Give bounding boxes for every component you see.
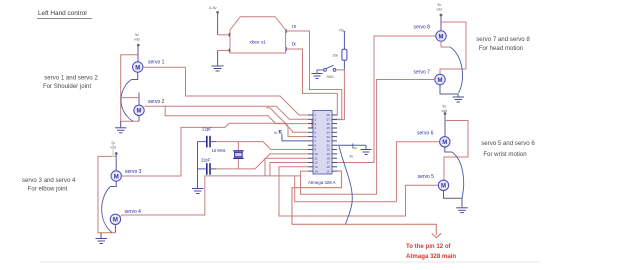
wire branch to IC pin3 [165, 106, 308, 123]
svg-text:M: M [438, 78, 443, 84]
svg-text:servo 5: servo 5 [418, 174, 435, 180]
svg-text:14: 14 [315, 169, 319, 173]
svg-text:26: 26 [327, 122, 331, 126]
wire servo2 top stub [138, 93, 140, 106]
svg-text:For head motion: For head motion [479, 45, 523, 52]
svg-text:servo 6: servo 6 [417, 130, 434, 136]
wire bracket to servo2 stub link [121, 97, 139, 99]
svg-text:M: M [441, 184, 446, 190]
wire xbee to ground [217, 50, 219, 65]
svg-text:+5v: +5v [339, 28, 345, 32]
svg-text:16 MHz: 16 MHz [212, 148, 226, 153]
title Left Hand control [37, 10, 92, 19]
svg-text:servo 1: servo 1 [148, 60, 165, 66]
svg-text:5v: 5v [438, 3, 442, 7]
power +3.3v P3 [209, 5, 219, 35]
wire servo6 bottom jog [445, 147, 452, 152]
motor servo 1 [133, 62, 143, 72]
note servo 7 and 8 [476, 36, 530, 52]
wire arc servo1 to ground [121, 80, 133, 122]
svg-text:15: 15 [327, 169, 331, 173]
svg-text:For elbow joint: For elbow joint [28, 186, 68, 193]
wire +5v loop to servo7 [440, 22, 466, 74]
wire servo1 signal to IC pin1 [143, 67, 308, 115]
svg-text:xbee s1: xbee s1 [249, 39, 266, 44]
xbee s1 body [230, 17, 286, 53]
wire IC pin12 drop [270, 163, 308, 176]
motor servo 7 [435, 74, 445, 84]
wire xbee rx to IC pin27 [286, 31, 342, 119]
note servo 1 and 2 [43, 75, 98, 91]
wire xbee tx to IC pin28 [286, 49, 338, 115]
wire blue bezier IC to bottom [339, 146, 352, 224]
ground G7 head [453, 97, 465, 102]
page bottom edge line [40, 261, 540, 263]
wire group2 bracket [98, 156, 116, 232]
power +5v P6 [442, 105, 448, 137]
wire arc servo6 to ground [452, 152, 464, 198]
note To the pin 12 red [406, 243, 456, 260]
motor servo 6 [440, 137, 450, 147]
svg-text:Atmega 328 A: Atmega 328 A [308, 180, 336, 185]
svg-text:servo 3: servo 3 [125, 169, 142, 175]
wire servo7 signal lane to IC pin11 [301, 80, 435, 195]
svg-text:servo 5 and servo 6: servo 5 and servo 6 [481, 140, 535, 147]
svg-text:22pF: 22pF [202, 126, 212, 131]
power +5v P1 [134, 33, 140, 62]
svg-text:rx: rx [292, 24, 297, 30]
IC U1 pins right [332, 115, 337, 171]
note servo 5 and 6 [481, 140, 535, 158]
wire servo5 signal lane to IC pin13 [279, 167, 438, 216]
wire group1 bracket [121, 55, 139, 122]
ground G5 caps [192, 189, 204, 194]
svg-text:20: 20 [327, 148, 331, 152]
svg-text:10k: 10k [333, 54, 339, 58]
svg-text:SW1: SW1 [327, 75, 334, 79]
node arrowhead to pin 12 [432, 233, 441, 238]
IC U1 pin numbers right 28-15 [327, 113, 331, 173]
xbee right pin ticks [285, 29, 287, 33]
wire servo6 signal lane to IC pin12 [295, 142, 440, 202]
op IC U1 Atmega 328 body [313, 111, 332, 175]
wire servo3 bottom jog [111, 181, 117, 186]
power +5v P4 [339, 28, 346, 32]
wire IC pin11 drop [265, 158, 308, 176]
xbee left pin upper [218, 34, 230, 36]
motor servo 5 [438, 180, 448, 190]
svg-text:Left Hand control: Left Hand control [38, 10, 87, 17]
xbee left pin lower [218, 49, 230, 51]
wire reset to IC pin4 [308, 70, 344, 128]
svg-text:servo 7 and servo 8: servo 7 and servo 8 [476, 36, 530, 43]
ground G6 right of IC [361, 150, 372, 155]
svg-text:vdd: vdd [437, 8, 443, 12]
node 5v net arrow at pin7 [274, 131, 282, 141]
svg-text:servo 8: servo 8 [414, 25, 431, 31]
IC U1 pins left [308, 115, 313, 171]
ground G4 sw1 [312, 74, 323, 79]
resistor R1 10k [342, 32, 347, 70]
wire C2 to IC pin10 [216, 154, 308, 169]
svg-text:servo 4: servo 4 [125, 209, 142, 215]
wire servo2 signal to IC pin2 [144, 106, 308, 119]
svg-text:M: M [442, 140, 447, 146]
motor servo 8 [436, 31, 446, 41]
wire C1 to IC pin9 [216, 142, 308, 150]
svg-text:servo 1 and servo 2: servo 1 and servo 2 [44, 75, 98, 82]
node 5v label right [350, 143, 357, 158]
wire servo8 signal to IC pin17R [337, 36, 436, 163]
svg-text:M: M [439, 34, 444, 40]
svg-text:tx: tx [292, 42, 296, 48]
capacitor C1 [198, 136, 217, 148]
IC U1 pin numbers left 1-14 [315, 113, 319, 173]
svg-text:servo 2: servo 2 [148, 99, 165, 105]
svg-text:servo 7: servo 7 [414, 70, 431, 76]
svg-text:3.3v: 3.3v [209, 5, 217, 10]
svg-text:5v: 5v [135, 33, 139, 37]
faint mark left [112, 142, 114, 157]
wire SW1 to ground [317, 70, 324, 73]
svg-text:M: M [137, 109, 142, 115]
ground G1 [115, 121, 127, 133]
wire IC pin15R loop to arrow line [292, 171, 436, 235]
svg-text:Atmaga 328 main: Atmaga 328 main [406, 253, 456, 260]
motor servo 2 [134, 105, 144, 115]
wire caps ground bracket [197, 142, 199, 188]
wire servo4 signal to IC pin14 [120, 171, 308, 217]
note servo 3 and 4 [22, 177, 76, 193]
wire servo8 bottom jog [441, 41, 450, 47]
svg-text:5v: 5v [443, 105, 447, 109]
wire IC pin21R to ground right [337, 145, 366, 149]
wire arc servo8 to ground [450, 47, 463, 93]
svg-text:To the pin 12 of: To the pin 12 of [406, 243, 452, 250]
svg-text:5v: 5v [274, 131, 278, 135]
wire +5v loop to servo5 [444, 121, 468, 181]
ground G3 xbee [212, 66, 224, 71]
svg-text:For Shoulder joint: For Shoulder joint [43, 83, 91, 90]
svg-text:22pF: 22pF [201, 157, 211, 162]
ground G2 [96, 233, 108, 244]
motor servo 4 [110, 214, 120, 224]
wire servo1 bottom jog [131, 72, 137, 79]
svg-text:M: M [114, 174, 119, 180]
power +5v P2 [111, 141, 118, 171]
wire arc servo3 to ground [102, 187, 112, 233]
wire servo2 bottom to bracket [138, 116, 140, 122]
wire 5v net to IC pin7 [282, 140, 308, 142]
wire servo7 bottom to ground [440, 85, 458, 97]
svg-text:servo 3 and servo 4: servo 3 and servo 4 [22, 177, 76, 184]
wire SW1 to resistor junction [336, 69, 344, 71]
crystal X1 [233, 142, 243, 169]
switch SW1 [324, 65, 336, 79]
wire servo5 bottom to ground [444, 191, 463, 208]
capacitor C2 [198, 163, 217, 175]
svg-text:For wrist motion: For wrist motion [483, 151, 526, 158]
svg-text:M: M [113, 218, 118, 224]
wire servo3 signal to IC pin5 [122, 123, 308, 176]
svg-text:vdd: vdd [134, 38, 140, 42]
short diag feed to pin6 [266, 108, 308, 137]
motor servo 3 [111, 171, 121, 181]
wire servo4 bottom [114, 225, 116, 233]
svg-text:5v: 5v [350, 155, 354, 159]
power +5v P5 [437, 3, 443, 31]
svg-text:M: M [135, 65, 140, 71]
ground G8 wrist [456, 208, 468, 213]
